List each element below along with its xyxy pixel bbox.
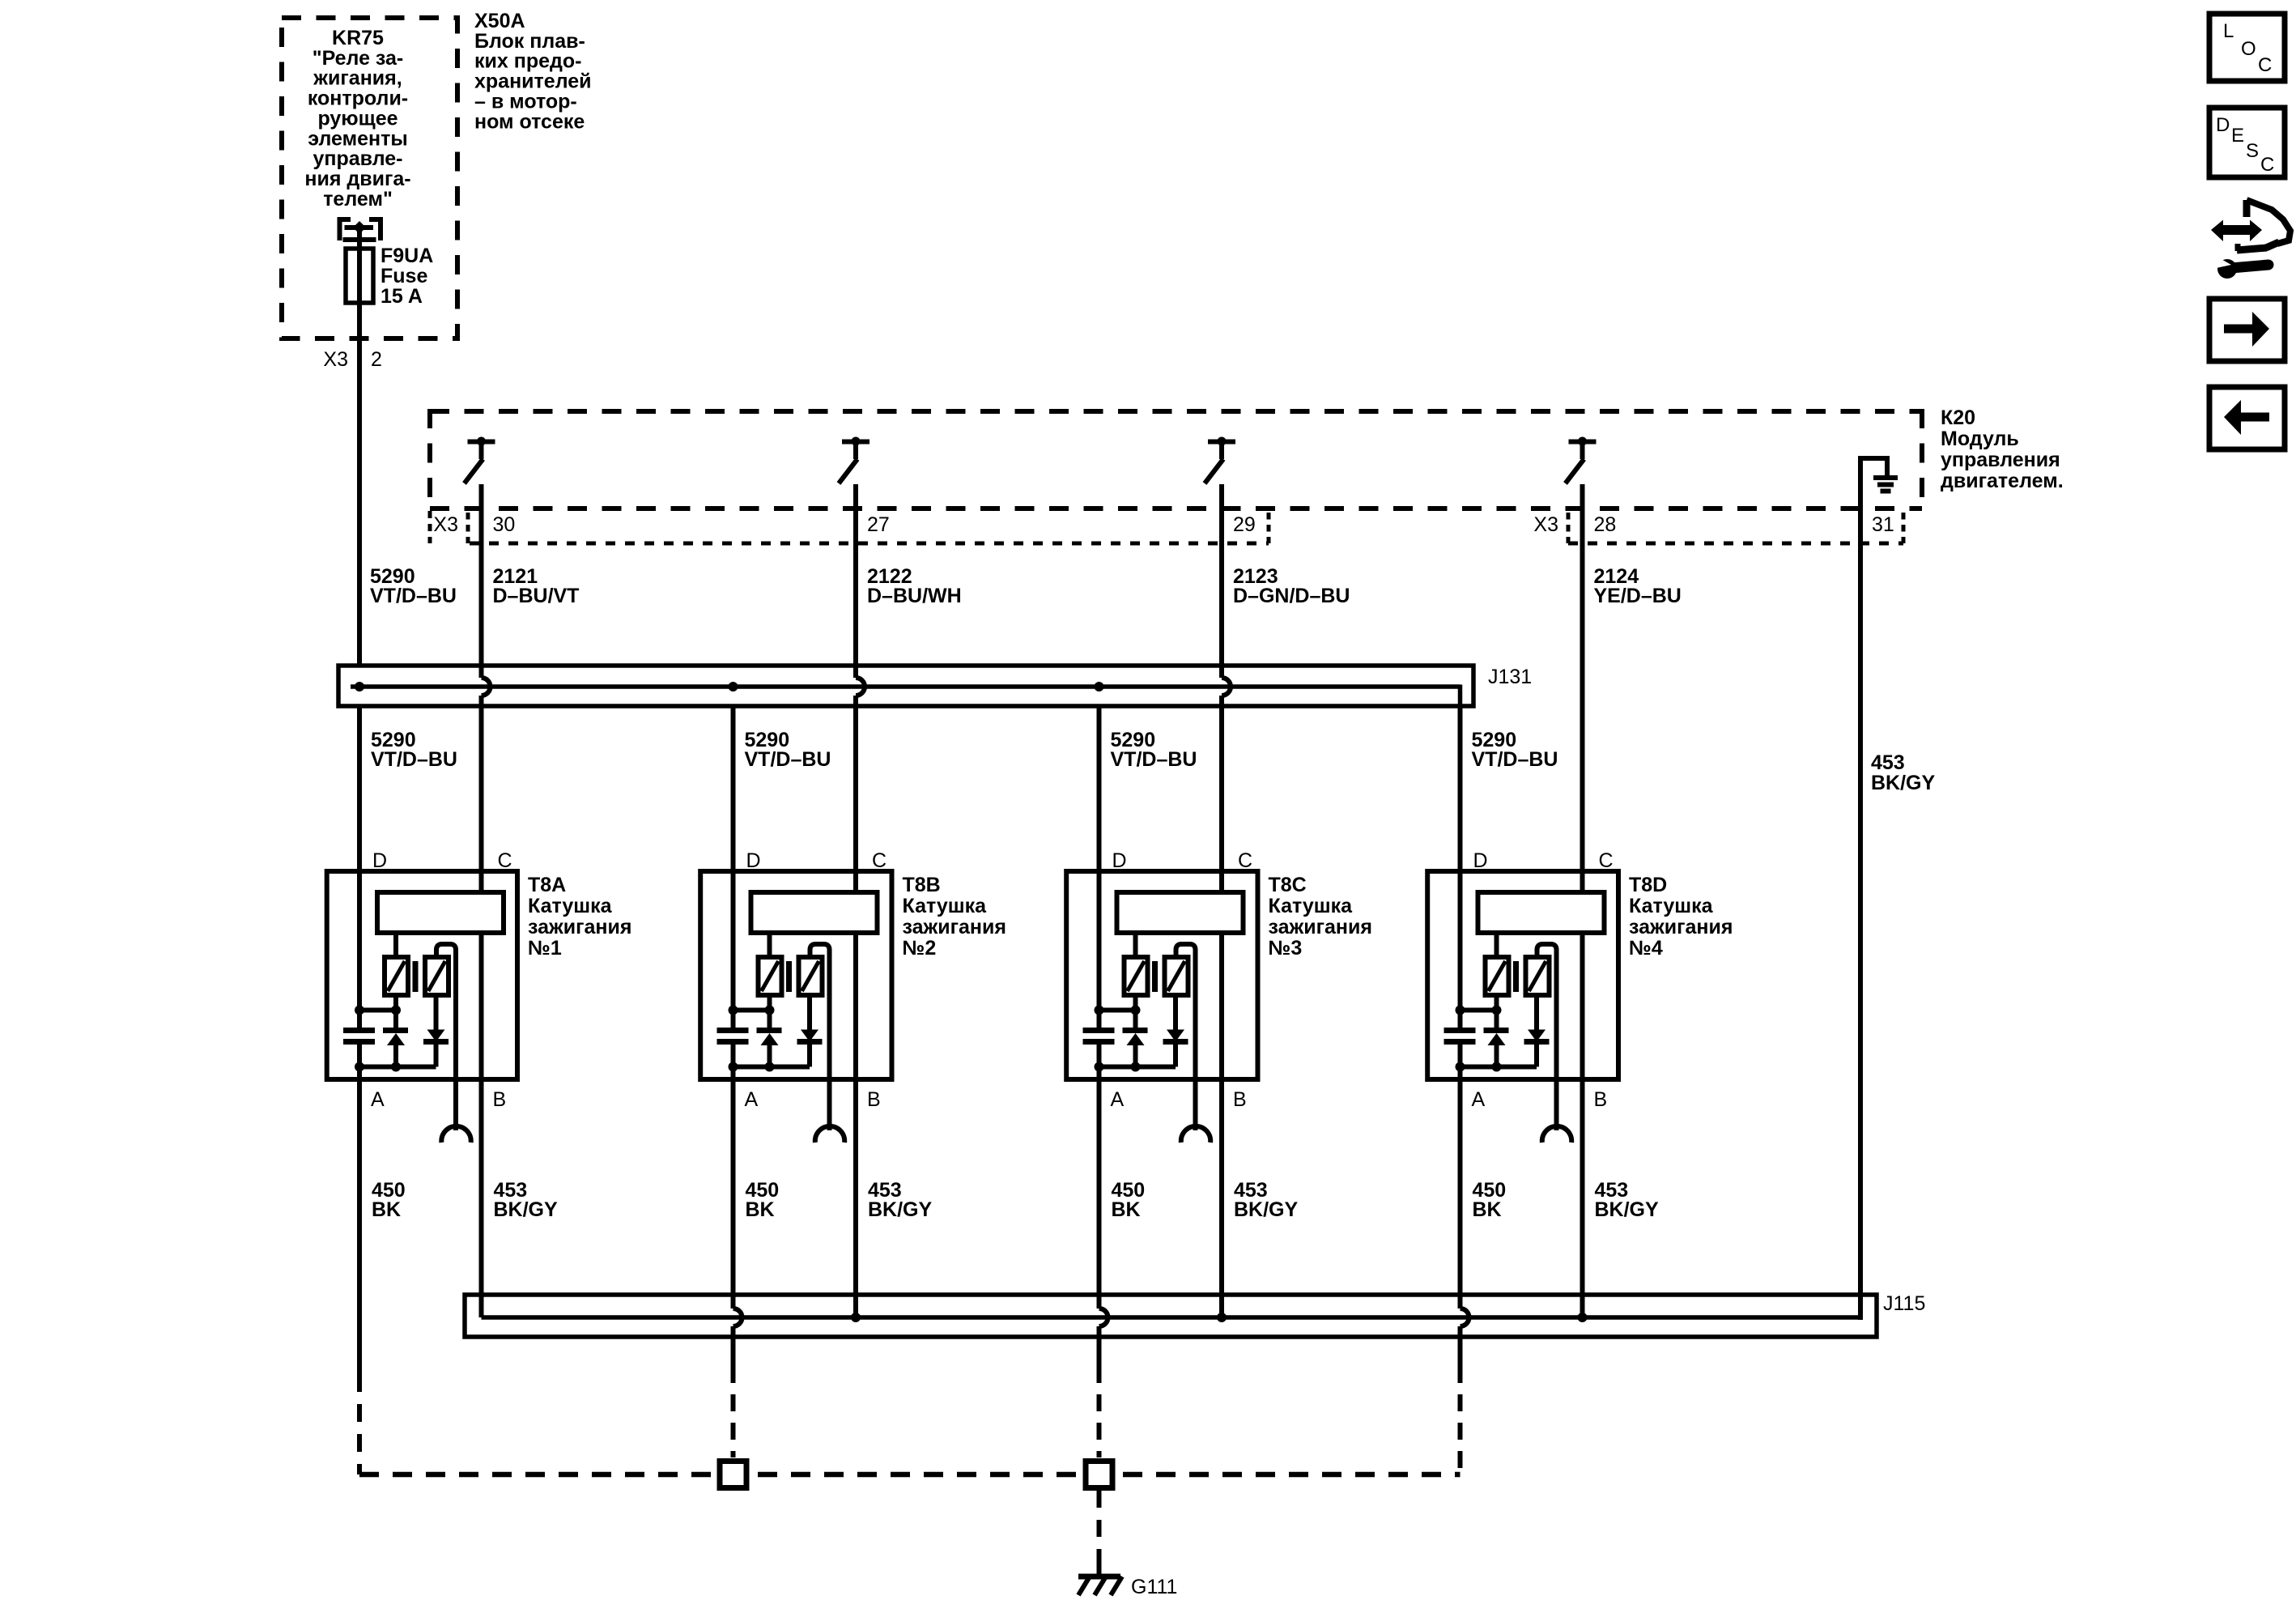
ignition coil T8B box	[700, 871, 891, 1079]
svg-text:зажигания: зажигания	[1629, 916, 1733, 938]
wire label 2121 D-BU/VT	[493, 565, 580, 607]
wire 450 coil T8D pin A to ground rail (hops J115)	[1461, 1079, 1469, 1474]
pin 30 label	[493, 513, 516, 536]
svg-text:A: A	[1472, 1088, 1486, 1111]
wire label 5290 VT/D-BU (top)	[370, 565, 457, 607]
coil T8C diode 1 (up)	[1123, 995, 1148, 1067]
connector strip bottom dotted line (group 1)	[470, 542, 1269, 546]
connector X3 pin 2 label	[323, 348, 382, 371]
coil T8B spark gap	[815, 1126, 844, 1143]
coil T8D diode 1 (up)	[1484, 995, 1509, 1067]
svg-text:J115: J115	[1883, 1292, 1925, 1315]
svg-text:ном отсеке: ном отсеке	[474, 110, 585, 133]
wire 453 coil T8C pin B to J115	[1219, 1079, 1224, 1317]
coil T8B pin D label	[746, 849, 761, 872]
svg-text:зажигания: зажигания	[903, 916, 1006, 938]
ECM K20 dashed box	[430, 409, 1922, 511]
coil T8C capacitor	[1083, 1031, 1115, 1042]
ignition coil T8A box	[327, 871, 517, 1079]
svg-text:зажигания: зажигания	[1269, 916, 1372, 938]
splice J131 label	[1488, 666, 1532, 688]
svg-text:X3: X3	[323, 348, 348, 371]
svg-text:D–BU/VT: D–BU/VT	[493, 585, 580, 607]
wire 450 coil T8C pin A to ground rail (hops J115)	[1099, 1079, 1108, 1457]
svg-text:№2: №2	[903, 937, 937, 960]
svg-text:BK/GY: BK/GY	[1871, 772, 1936, 794]
pin separator X3/28	[1567, 513, 1571, 543]
chassis ground G111	[1078, 1577, 1122, 1595]
ignition coil T8C label	[1269, 874, 1372, 960]
wire label 450 BK (coil T8C)	[1112, 1179, 1146, 1221]
relay KR75 contact	[338, 217, 384, 249]
coil T8A top rail	[355, 1006, 401, 1015]
wire label 453 BK/GY (coil T8B)	[868, 1179, 933, 1221]
wire 450 coil T8A pin A to ground rail	[357, 1079, 362, 1474]
coil T8C link primary to winding 1	[1133, 933, 1138, 957]
coil T8D winding 1	[1486, 957, 1509, 995]
svg-text:F9UA: F9UA	[381, 245, 433, 267]
svg-text:Катушка: Катушка	[1629, 895, 1714, 917]
junction dot J131/coil3 D	[1095, 682, 1104, 691]
svg-text:15 A: 15 A	[381, 285, 423, 308]
svg-text:C: C	[2260, 154, 2274, 176]
ground symbol inside K20	[1858, 456, 1898, 491]
svg-text:D: D	[1112, 849, 1127, 872]
splice J131 bus	[338, 666, 1473, 706]
coil T8C core bar	[1152, 961, 1158, 992]
splice J115 bus	[465, 1295, 1877, 1337]
svg-text:элементы: элементы	[308, 127, 407, 150]
pin 31 label	[1872, 513, 1894, 536]
coil T8C bottom rail	[1095, 1062, 1176, 1072]
wire 2124 from K20 pin to coil T8D pin C	[1580, 484, 1585, 871]
pin separator right of 29	[1267, 513, 1271, 543]
wire 5290 VT/D-BU (fuse to J131)	[357, 303, 362, 666]
wire 453 coil T8D pin B to J115	[1580, 1079, 1585, 1317]
svg-text:Катушка: Катушка	[528, 895, 613, 917]
junction dot J115/coil4 B	[1578, 1313, 1588, 1322]
svg-text:BK: BK	[1473, 1198, 1502, 1221]
connector strip bottom dotted line (group 2)	[1568, 542, 1903, 546]
coil T8A diode 2 (down)	[423, 995, 449, 1067]
svg-text:контроли-: контроли-	[308, 87, 408, 110]
svg-text:D: D	[372, 849, 387, 872]
coil T8D core bar	[1513, 961, 1519, 992]
svg-text:VT/D–BU: VT/D–BU	[1472, 748, 1558, 771]
wire label 2122 D-BU/WH	[867, 565, 962, 607]
svg-text:YE/D–BU: YE/D–BU	[1594, 585, 1682, 607]
coil T8B capacitor	[717, 1031, 749, 1042]
coil T8D secondary output wire	[1537, 944, 1557, 1130]
svg-text:B: B	[493, 1088, 507, 1111]
ignition coil T8A label	[528, 874, 631, 960]
wire 5290 to coil T8A pin D	[357, 706, 362, 871]
coil T8C primary winding block	[1117, 892, 1244, 933]
svg-text:Блок плав-: Блок плав-	[474, 30, 585, 53]
svg-text:BK/GY: BK/GY	[1595, 1198, 1660, 1221]
coil T8D bottom rail	[1456, 1062, 1537, 1072]
wire 2122 from K20 pin to coil T8B pin C (hops J131)	[856, 484, 865, 871]
svg-text:хранителей: хранителей	[474, 70, 592, 93]
coil T8B bottom rail	[729, 1062, 810, 1072]
wire label 2123 D-GN/D-BU	[1233, 565, 1350, 607]
coil T8C pin A label	[1111, 1088, 1125, 1111]
driver switch pin 30 driver inside K20	[465, 437, 495, 484]
coil T8D diode 2 (down)	[1524, 995, 1550, 1067]
wire label 453 BK/GY (coil T8C)	[1234, 1179, 1299, 1221]
wire 5290 to coil T8C pin D	[1097, 706, 1102, 871]
coil T8C secondary output wire	[1176, 944, 1196, 1130]
coil T8B pin B label	[867, 1088, 881, 1111]
svg-text:O: O	[2241, 38, 2256, 60]
svg-text:X50A: X50A	[474, 10, 525, 32]
coil T8A link primary to winding 1	[393, 933, 398, 957]
svg-text:C: C	[1238, 849, 1252, 872]
svg-text:BK/GY: BK/GY	[1234, 1198, 1299, 1221]
svg-text:Катушка: Катушка	[1269, 895, 1354, 917]
coil T8D pin C label	[1599, 849, 1614, 872]
wire label 5290 VT/D-BU (coil T8B)	[745, 729, 831, 771]
svg-text:ния двига-: ния двига-	[304, 168, 410, 190]
svg-text:KR75: KR75	[332, 27, 384, 49]
svg-text:BK: BK	[372, 1198, 401, 1221]
coil T8C diode 2 (down)	[1163, 995, 1188, 1067]
svg-text:BK/GY: BK/GY	[868, 1198, 933, 1221]
svg-text:T8B: T8B	[903, 874, 941, 896]
coil T8B D wire inside	[731, 871, 736, 1079]
svg-text:№4: №4	[1629, 937, 1663, 960]
junction dot J115/coil2 B	[851, 1313, 861, 1322]
svg-text:31: 31	[1872, 513, 1894, 536]
svg-text:двигателем.: двигателем.	[1941, 470, 2064, 492]
coil T8D pin B label	[1594, 1088, 1608, 1111]
svg-text:Катушка: Катушка	[903, 895, 988, 917]
coil T8B diode 1 (up)	[757, 995, 782, 1067]
svg-text:B: B	[1594, 1088, 1608, 1111]
wire label 5290 VT/D-BU (coil T8A)	[371, 729, 457, 771]
svg-text:A: A	[371, 1088, 385, 1111]
coil T8C spark gap	[1181, 1126, 1210, 1143]
coil T8C pin C label	[1238, 849, 1252, 872]
svg-text:A: A	[745, 1088, 759, 1111]
coil T8A diode 1 (up)	[383, 995, 408, 1067]
wire label 5290 VT/D-BU (coil T8C)	[1111, 729, 1197, 771]
fuse F9UA value label	[381, 245, 433, 308]
svg-text:управления: управления	[1941, 449, 2060, 471]
splice J115 label	[1883, 1292, 1925, 1315]
splice square (G111 branch)	[1086, 1462, 1112, 1488]
svg-text:Модуль: Модуль	[1941, 428, 2019, 450]
coil T8A primary winding block	[377, 892, 504, 933]
coil T8D pin D label	[1473, 849, 1488, 872]
driver switch pin 27 driver inside K20	[839, 437, 870, 484]
fuse block X50A label	[474, 10, 592, 133]
pin separator right of 31	[1902, 513, 1906, 543]
svg-text:27: 27	[867, 513, 890, 536]
wire 453 coil T8A pin B to J115	[479, 1079, 484, 1317]
ground rail dashed wire	[359, 1472, 1461, 1478]
svg-text:ких предо-: ких предо-	[474, 50, 581, 73]
coil T8B secondary output wire	[810, 944, 830, 1130]
pin 28 label	[1594, 513, 1617, 536]
svg-text:жигания,: жигания,	[313, 67, 402, 90]
svg-text:D: D	[2216, 114, 2230, 136]
connector strip left edge	[428, 511, 432, 543]
coil T8A capacitor	[343, 1031, 375, 1042]
icon box arrow left	[2209, 387, 2285, 449]
wire label 453 BK/GY (right)	[1871, 751, 1936, 794]
svg-text:VT/D–BU: VT/D–BU	[745, 748, 831, 771]
svg-text:C: C	[2258, 54, 2272, 76]
wire label 453 BK/GY (coil T8A)	[494, 1179, 559, 1221]
driver switch pin 29 driver inside K20	[1205, 437, 1235, 484]
coil T8A winding 2	[425, 957, 449, 995]
svg-text:№1: №1	[528, 937, 562, 960]
svg-text:L: L	[2223, 20, 2234, 42]
svg-text:29: 29	[1233, 513, 1256, 536]
svg-text:VT/D–BU: VT/D–BU	[1111, 748, 1197, 771]
wire 2123 from K20 pin to coil T8C pin C (hops J131)	[1222, 484, 1231, 871]
svg-text:B: B	[867, 1088, 881, 1111]
driver switch pin 28 driver inside K20	[1566, 437, 1597, 484]
svg-text:X3: X3	[433, 513, 458, 536]
svg-text:BK: BK	[746, 1198, 775, 1221]
splice square (coil2 ground)	[720, 1462, 746, 1488]
pin 27 label	[867, 513, 890, 536]
connector label X3 (pin 30 group)	[433, 513, 458, 536]
ignition coil T8D label	[1629, 874, 1733, 960]
ignition coil T8C box	[1066, 871, 1257, 1079]
coil T8C top rail	[1095, 1006, 1141, 1015]
svg-text:телем": телем"	[323, 188, 393, 211]
icon box DESC	[2209, 108, 2285, 177]
svg-text:VT/D–BU: VT/D–BU	[370, 585, 457, 607]
ignition coil T8B label	[903, 874, 1006, 960]
coil T8B winding 2	[799, 957, 823, 995]
svg-text:К20: К20	[1941, 406, 1975, 429]
wire to G111 (dashed)	[1097, 1491, 1102, 1577]
wire label 2124 YE/D-BU	[1594, 565, 1682, 607]
svg-text:D: D	[746, 849, 761, 872]
coil T8C pin D label	[1112, 849, 1127, 872]
coil T8C winding 2	[1165, 957, 1188, 995]
coil T8B link primary to winding 1	[767, 933, 772, 957]
svg-text:C: C	[1599, 849, 1614, 872]
coil T8D top rail	[1456, 1006, 1502, 1015]
svg-text:№3: №3	[1269, 937, 1303, 960]
coil T8D capacitor	[1444, 1031, 1476, 1042]
junction dot J131/5290 feed	[355, 682, 364, 691]
coil T8A bottom rail	[355, 1062, 436, 1072]
ECM K20 label	[1941, 406, 2064, 492]
svg-text:BK: BK	[1112, 1198, 1141, 1221]
svg-text:"Реле за-: "Реле за-	[313, 47, 404, 70]
coil T8D primary winding block	[1478, 892, 1605, 933]
coil T8D pin A label	[1472, 1088, 1486, 1111]
pin separator X3/30	[466, 513, 470, 543]
svg-text:VT/D–BU: VT/D–BU	[371, 748, 457, 771]
relay KR75 description label	[304, 27, 410, 211]
coil T8D winding 2	[1526, 957, 1550, 995]
svg-text:A: A	[1111, 1088, 1125, 1111]
svg-text:T8D: T8D	[1629, 874, 1667, 896]
wire 5290 to coil T8B pin D	[731, 706, 736, 871]
svg-text:30: 30	[493, 513, 516, 536]
coil T8A D wire inside	[357, 871, 362, 1079]
coil T8D spark gap	[1542, 1126, 1571, 1143]
wire label 450 BK (coil T8A)	[372, 1179, 406, 1221]
junction dot J131/coil2 D	[729, 682, 738, 691]
wire 450 coil T8B pin A to ground rail (hops J115)	[733, 1079, 742, 1457]
coil T8B core bar	[786, 961, 792, 992]
svg-text:D: D	[1473, 849, 1488, 872]
coil T8D link primary to winding 1	[1495, 933, 1499, 957]
svg-text:C: C	[498, 849, 512, 872]
icon box LOC	[2209, 14, 2285, 81]
coil T8B diode 2 (down)	[797, 995, 823, 1067]
icon box arrow right	[2209, 299, 2285, 361]
wire 2121 from K20 pin to coil T8A pin C (hops J131)	[482, 484, 491, 871]
coil T8A pin B label	[493, 1088, 507, 1111]
coil T8B primary winding block	[751, 892, 878, 933]
svg-text:C: C	[872, 849, 887, 872]
svg-text:BK/GY: BK/GY	[494, 1198, 559, 1221]
coil T8C pin B label	[1233, 1088, 1247, 1111]
wire label 5290 VT/D-BU (coil T8D)	[1472, 729, 1558, 771]
svg-text:28: 28	[1594, 513, 1617, 536]
svg-text:E: E	[2231, 125, 2244, 147]
coil T8A spark gap	[441, 1126, 470, 1143]
coil T8A secondary output wire	[436, 944, 456, 1130]
icon hand with wrench	[2211, 200, 2290, 279]
coil T8B pin C label	[872, 849, 887, 872]
svg-text:T8C: T8C	[1269, 874, 1307, 896]
fuse F9UA	[346, 249, 373, 303]
coil T8B winding 1	[759, 957, 782, 995]
pin 29 label	[1233, 513, 1256, 536]
coil T8A pin C label	[498, 849, 512, 872]
connector label X3 (pin 28 group)	[1533, 513, 1558, 536]
svg-text:G111: G111	[1131, 1576, 1177, 1598]
coil T8B top rail	[729, 1006, 775, 1015]
svg-text:D–GN/D–BU: D–GN/D–BU	[1233, 585, 1350, 607]
svg-text:рующее: рующее	[317, 107, 398, 130]
junction dot J115/coil3 B	[1217, 1313, 1227, 1322]
coil T8C C wire inside	[1219, 871, 1224, 1079]
wire 5290 to coil T8D pin D	[1458, 706, 1463, 871]
ground G111 label	[1131, 1576, 1177, 1598]
wire 453 BK/GY (K20 pin 31 to J115)	[1858, 458, 1863, 1320]
svg-text:– в мотор-: – в мотор-	[474, 90, 577, 113]
coil T8C winding 1	[1125, 957, 1148, 995]
coil T8A pin A label	[371, 1088, 385, 1111]
svg-text:S: S	[2246, 140, 2259, 162]
wire label 450 BK (coil T8B)	[746, 1179, 780, 1221]
coil T8B C wire inside	[853, 871, 858, 1079]
svg-text:зажигания: зажигания	[528, 916, 631, 938]
svg-text:J131: J131	[1488, 666, 1532, 688]
wire 453 coil T8B pin B to J115	[853, 1079, 858, 1317]
coil T8D D wire inside	[1458, 871, 1463, 1079]
svg-text:Fuse: Fuse	[381, 265, 427, 287]
coil T8A winding 1	[385, 957, 408, 995]
svg-text:X3: X3	[1533, 513, 1558, 536]
coil T8A core bar	[413, 961, 419, 992]
svg-text:D–BU/WH: D–BU/WH	[867, 585, 962, 607]
coil T8C D wire inside	[1097, 871, 1102, 1079]
coil T8A C wire inside	[479, 871, 484, 1079]
svg-text:T8A: T8A	[528, 874, 566, 896]
coil T8A pin D label	[372, 849, 387, 872]
svg-text:453: 453	[1871, 751, 1905, 774]
svg-text:управле-: управле-	[313, 147, 403, 170]
svg-text:B: B	[1233, 1088, 1247, 1111]
coil T8D C wire inside	[1580, 871, 1585, 1079]
svg-text:2: 2	[371, 348, 382, 371]
wire label 453 BK/GY (coil T8D)	[1595, 1179, 1660, 1221]
wire label 450 BK (coil T8D)	[1473, 1179, 1507, 1221]
coil T8B pin A label	[745, 1088, 759, 1111]
fuse block X50A dashed box	[282, 18, 457, 338]
ignition coil T8D box	[1427, 871, 1618, 1079]
